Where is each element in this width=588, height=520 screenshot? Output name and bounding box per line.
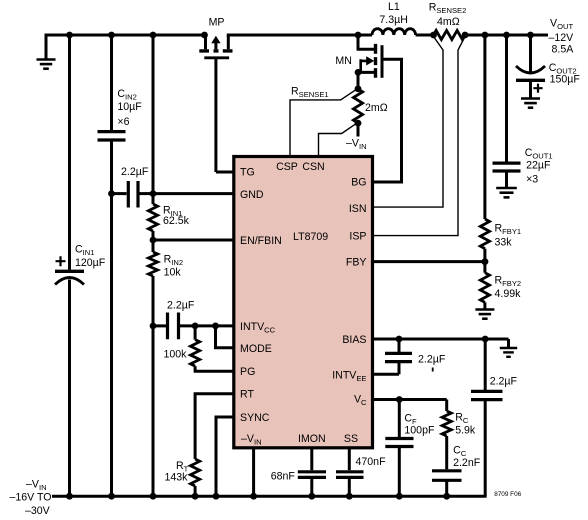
transistor MN (NMOS) [357, 35, 376, 49]
ground below COUT1 [496, 187, 517, 190]
left node column (GND/EN divider) [152, 35, 155, 496]
node MN drain [355, 32, 362, 39]
junction dots bottom rail [66, 493, 73, 500]
svg-text:4mΩ: 4mΩ [437, 16, 460, 28]
svg-text:2.2nF: 2.2nF [453, 457, 481, 469]
wire MODE [216, 326, 235, 348]
resistor RSENSE2 4mohm [430, 32, 437, 39]
svg-text:2.2µF: 2.2µF [121, 166, 149, 178]
IC U1 LT8709 [234, 157, 373, 448]
transistor MP (PMOS) [206, 35, 229, 49]
svg-text:7.3µH: 7.3µH [379, 14, 407, 26]
capacitor 2.2uF (VIN bypass) [112, 192, 127, 195]
svg-text:–12V: –12V [549, 32, 575, 44]
resistor RC 5.9k [445, 400, 448, 412]
capacitor CF 100pF [398, 400, 401, 438]
svg-text:TG: TG [240, 167, 255, 179]
wire ISN kelvin [374, 37, 443, 208]
svg-text:8.5A: 8.5A [552, 44, 575, 56]
svg-text:–16V TO: –16V TO [10, 492, 52, 504]
resistor RT 143k [191, 459, 200, 486]
svg-text:143k: 143k [165, 472, 189, 484]
top input rail [45, 34, 549, 37]
svg-text:MODE: MODE [240, 343, 272, 355]
capacitor 68nF (IMON) [310, 448, 313, 470]
capacitor CIN1 120uF [68, 35, 71, 496]
svg-text:CIN1: CIN1 [75, 243, 94, 257]
bottom -VIN rail [52, 495, 487, 498]
svg-text:ISN: ISN [349, 203, 367, 215]
wire SYNC [216, 417, 234, 496]
svg-text:MN: MN [335, 55, 351, 67]
svg-text:EN/FBIN: EN/FBIN [240, 235, 282, 247]
capacitor COUT2 150uF [527, 32, 534, 39]
resistor RFBY2 4.99k [480, 273, 489, 303]
capacitor 2.2uF (INTVEE rail) [484, 339, 487, 390]
wire -VIN pin [252, 448, 255, 496]
svg-text:PG: PG [240, 366, 255, 378]
svg-text:LT8709: LT8709 [293, 231, 328, 243]
svg-text:RFBY2: RFBY2 [495, 275, 522, 289]
svg-text:–VIN: –VIN [26, 479, 47, 493]
junction dots top rail [66, 32, 73, 39]
node RSENSE1 top [355, 69, 362, 76]
capacitor CIN2 10uF x6 [110, 35, 113, 496]
svg-text:SS: SS [344, 433, 358, 445]
wire INTVCC [153, 324, 166, 327]
wire FBY [374, 260, 485, 263]
wire CSN kelvin [319, 123, 357, 156]
resistor RSENSE1 2mohm [353, 89, 362, 123]
svg-text:IMON: IMON [298, 433, 326, 445]
capacitor COUT1 22uF x3 [503, 32, 510, 39]
svg-text:BG: BG [351, 177, 366, 189]
svg-text:2mΩ: 2mΩ [365, 102, 388, 114]
svg-text:CC: CC [453, 444, 467, 458]
svg-text:VOUT: VOUT [550, 18, 573, 32]
wire CSP kelvin [290, 89, 357, 156]
svg-text:62.5k: 62.5k [163, 215, 190, 227]
svg-text:150µF: 150µF [550, 73, 581, 85]
junction dots mid nodes [108, 190, 115, 197]
capacitor 470nF (SS) [348, 448, 351, 470]
svg-text:RT: RT [240, 389, 254, 401]
svg-text:RC: RC [455, 412, 469, 426]
svg-text:5.9k: 5.9k [455, 424, 476, 436]
wire BIAS [374, 338, 509, 341]
svg-text:CIN2: CIN2 [117, 88, 136, 102]
wire PG [195, 366, 234, 371]
svg-text:RFBY1: RFBY1 [495, 223, 522, 237]
ground below COUT2 [521, 97, 540, 100]
svg-text:MP: MP [209, 17, 225, 29]
resistor 100k [194, 326, 197, 340]
capacitor 2.2uF (BIAS-INTVEE) [398, 339, 401, 352]
svg-text:SYNC: SYNC [240, 412, 270, 424]
svg-text:100k: 100k [164, 348, 188, 360]
svg-text:68nF: 68nF [271, 471, 296, 483]
capacitor CC 2.2nF [432, 471, 462, 481]
capacitor 2.2uF (INTVCC) [168, 313, 179, 340]
svg-text:–30V: –30V [25, 505, 51, 517]
svg-text:–VIN: –VIN [346, 138, 367, 152]
svg-text:2.2µF: 2.2µF [490, 376, 518, 388]
input ground [45, 34, 48, 59]
svg-text:RIN2: RIN2 [164, 254, 183, 268]
svg-text:×6: ×6 [117, 116, 129, 128]
svg-text:FBY: FBY [346, 257, 367, 269]
wire GND pin [153, 192, 234, 195]
svg-text:BIAS: BIAS [342, 334, 366, 346]
svg-text:33k: 33k [495, 237, 513, 249]
svg-text:RSENSE1: RSENSE1 [291, 85, 329, 99]
svg-text:100pF: 100pF [404, 424, 435, 436]
svg-text:×3: ×3 [526, 173, 538, 185]
svg-text:470nF: 470nF [356, 456, 387, 468]
svg-text:22µF: 22µF [526, 160, 551, 172]
wire TG (MP gate) [216, 58, 234, 172]
svg-text:4.99k: 4.99k [495, 288, 522, 300]
svg-text:COUT1: COUT1 [525, 147, 553, 161]
svg-text:8709 F06: 8709 F06 [494, 491, 521, 498]
svg-text:2.2µF: 2.2µF [418, 354, 446, 366]
wire ISP kelvin [374, 37, 465, 236]
svg-text:ISP: ISP [349, 230, 366, 242]
resistor RIN1 62.5k [148, 204, 157, 231]
svg-text:RSENSE2: RSENSE2 [429, 1, 467, 15]
svg-text:10µF: 10µF [117, 101, 142, 113]
inductor L1 7.3uH [372, 29, 416, 35]
resistor RIN2 10k [148, 252, 157, 276]
svg-text:CSP: CSP [276, 161, 298, 173]
svg-text:2.2µF: 2.2µF [167, 299, 195, 311]
svg-text:GND: GND [240, 189, 264, 201]
wire MN gate to BG [374, 59, 402, 182]
svg-text:10k: 10k [164, 266, 182, 278]
wire VC [374, 398, 447, 401]
svg-text:L1: L1 [388, 1, 400, 13]
svg-text:CSN: CSN [302, 161, 324, 173]
resistor RFBY1 33k [482, 32, 489, 39]
svg-text:120µF: 120µF [75, 257, 106, 269]
ground at BIAS [507, 339, 510, 348]
ground below RFBY2 [483, 302, 486, 309]
wire RT [195, 394, 234, 459]
wire EN/FBIN pin [153, 239, 234, 242]
wire INTVEE [374, 373, 399, 376]
